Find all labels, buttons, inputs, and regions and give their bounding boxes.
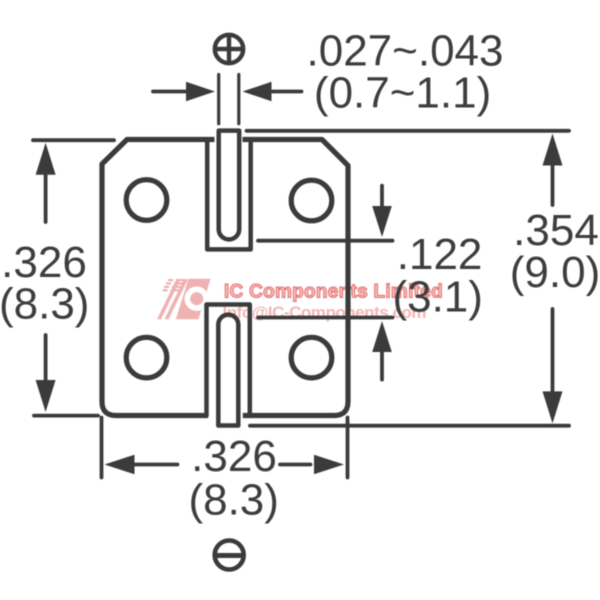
arrowhead mid-dim up [372, 321, 392, 352]
arrowhead bottom-dim left (points left) [105, 455, 135, 475]
arrowhead left-dim down [36, 380, 56, 412]
minus symbol [215, 541, 244, 570]
bottom dim line right [280, 463, 311, 467]
pad circle bottom-right [291, 337, 332, 378]
watermark logo [157, 279, 211, 320]
dim line left upper [44, 172, 48, 222]
dim ext line left-bottom [34, 414, 98, 418]
dim line right upper [551, 165, 555, 205]
logo stripe 2 [165, 279, 189, 319]
bottom dim ext left [100, 418, 104, 478]
bottom slot outer [207, 305, 250, 416]
top dim line right [272, 90, 302, 94]
dim line mid lower [380, 352, 384, 380]
arrowhead mid-dim down [372, 206, 392, 237]
arrowhead bottom-dim right (points right) [314, 455, 344, 475]
logo stripe 1 [157, 279, 181, 319]
plus symbol [215, 35, 243, 63]
pad circle top-left [126, 180, 167, 221]
dim ext line right-bottom [250, 424, 569, 428]
svg-text:(8.3): (8.3) [188, 476, 278, 525]
arrowhead right-dim up [543, 134, 563, 166]
arrowhead top-dim left (points right) [186, 82, 215, 101]
bottom dim line left [135, 463, 178, 467]
arrowhead left-dim up [36, 143, 56, 175]
svg-text:(9.0): (9.0) [510, 248, 600, 297]
dim ext line left-top [33, 138, 114, 142]
top slot outer [207, 140, 251, 250]
logo C dot [190, 292, 203, 305]
dim ext line mid-2 [258, 316, 393, 320]
lead width extension lines [219, 75, 239, 124]
svg-text:(3.1): (3.1) [392, 273, 482, 322]
pad circle top-right [291, 180, 332, 221]
bottom dim ext right [346, 418, 350, 478]
dim ext line right-top [247, 129, 570, 133]
logo hatch dashes [163, 279, 187, 291]
arrowhead top-dim right (points left) [243, 82, 272, 101]
pad circle bottom-left [126, 337, 167, 378]
logo C hole [185, 287, 209, 311]
top lead tube [219, 131, 240, 240]
dim ext line mid-1 [258, 239, 393, 243]
top dim line left [153, 90, 188, 94]
bottom lead tube [218, 315, 238, 426]
logo C glyph [176, 279, 211, 320]
svg-text:.326: .326 [191, 432, 277, 481]
dim line right lower [551, 309, 555, 392]
dim line mid upper [380, 186, 384, 207]
body outline [102, 140, 348, 416]
arrowhead right-dim down [543, 391, 563, 423]
dim line left lower [44, 335, 48, 384]
svg-text:(0.7~1.1): (0.7~1.1) [314, 69, 491, 118]
svg-text:(8.3): (8.3) [0, 280, 89, 329]
